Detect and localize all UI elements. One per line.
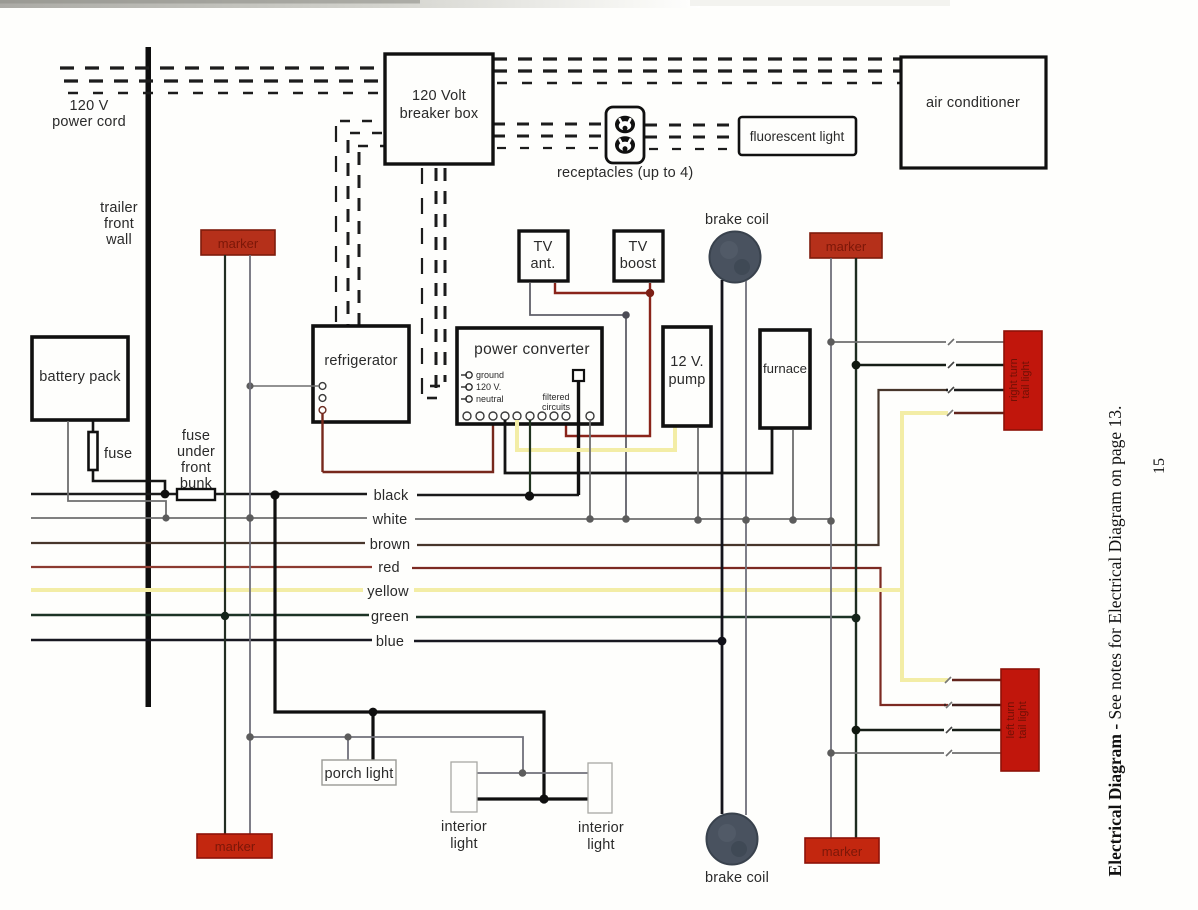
svg-text:light: light (587, 837, 615, 853)
power converter bottom terminal row (463, 412, 594, 420)
wire brown bus right, turns up at x879 to upper signal box (417, 390, 948, 545)
svg-text:black: black (374, 488, 409, 504)
node lower signal 4 (827, 749, 835, 757)
furnace box (760, 330, 810, 428)
svg-text:right turn: right turn (1008, 358, 1020, 401)
120V power cord dashed lines (60, 68, 384, 93)
node black bus lights feed (270, 490, 279, 499)
wire right marker dark vertical (855, 258, 857, 838)
wire green pc terminal to black bus (529, 420, 531, 496)
wire upper signal 2 (black from marker) (856, 364, 1004, 367)
wire white bus right (415, 518, 831, 520)
brake coil (bottom) (707, 814, 758, 865)
svg-text:neutral: neutral (476, 394, 504, 404)
wire white bus (31, 517, 367, 519)
node left marker on green bus (221, 612, 229, 620)
svg-text:tail light: tail light (1020, 361, 1032, 398)
marker bottom-right (805, 838, 879, 863)
svg-text:receptacles (up to 4): receptacles (up to 4) (557, 165, 693, 181)
porch light box (322, 760, 396, 785)
svg-text:circuits: circuits (542, 402, 571, 412)
svg-text:Electrical Diagram - See notes: Electrical Diagram - See notes for Elect… (1105, 406, 1125, 877)
terminal ground (461, 374, 467, 376)
wire breaker box to air conditioner (dashed x3) (493, 59, 901, 83)
wire pump white down (697, 428, 699, 520)
svg-text:fuse: fuse (104, 446, 132, 462)
wire lower signal 3 (dark from marker vertical) (856, 729, 1001, 732)
TV boost box (614, 231, 663, 281)
fuse under front bunk (horizontal fuse on black bus) (177, 489, 215, 500)
wire thick black lights feed (275, 495, 588, 799)
svg-text:trailer: trailer (100, 200, 138, 216)
wire breaker box to refrigerator (dashed vertical x3) (336, 121, 384, 325)
svg-text:ground: ground (476, 370, 504, 380)
interior light 1 (451, 762, 477, 812)
wire green bus right (416, 616, 856, 618)
marker top-right (810, 233, 882, 258)
wire upper signal 1 (gray from marker) (831, 341, 1004, 343)
svg-text:power cord: power cord (52, 114, 126, 130)
svg-text:boost: boost (620, 256, 656, 272)
wire yellow down to lower signal box (902, 590, 948, 680)
wire porch light black drop (371, 712, 374, 760)
svg-text:front: front (104, 216, 134, 232)
node interior gray junction (519, 769, 527, 777)
wire gray marker to refrigerator (250, 385, 319, 387)
power converter box (457, 328, 602, 424)
12 V pump box (663, 327, 711, 426)
svg-text:TV: TV (629, 239, 648, 255)
wire breaker box to power converter (dashed vertical x3) (422, 168, 447, 399)
node battery wire on black bus (161, 490, 170, 499)
node blue bus to brake (718, 637, 727, 646)
svg-text:red: red (378, 560, 400, 576)
svg-text:under: under (177, 444, 215, 460)
wire red bus (31, 566, 372, 568)
terminal 120 V. (461, 386, 467, 388)
node left marker gray on white bus (246, 514, 254, 522)
wire yellow bus (31, 588, 363, 592)
node porch gray tap (344, 733, 351, 740)
node pump white (694, 516, 702, 524)
wire blue bus right (414, 640, 722, 642)
wire lower signal 4 (gray from marker vertical) (831, 752, 1001, 754)
svg-text:brake coil: brake coil (705, 212, 769, 228)
wire gray brake vertical (top coil to bottom coil) (745, 281, 747, 815)
wire battery positive to fuse to black bus (93, 421, 165, 494)
node right gray on white bus (827, 517, 835, 525)
svg-text:12 V.: 12 V. (670, 354, 704, 370)
wire left marker dark vertical (224, 255, 226, 834)
node furnace white (789, 516, 797, 524)
svg-text:brown: brown (370, 537, 411, 553)
air conditioner box (901, 57, 1046, 168)
node white pc (586, 515, 594, 523)
svg-text:marker: marker (826, 239, 867, 254)
outlet face 2 (615, 136, 635, 154)
wire thick black filtered circuits to black bus (577, 381, 580, 495)
svg-text:120 V: 120 V (70, 98, 109, 114)
wire porch light gray drop (347, 737, 349, 760)
svg-text:breaker box: breaker box (400, 106, 479, 122)
wire upper signal 3 break (946, 389, 1004, 392)
signal box upper (tail/turn lights) (1004, 331, 1042, 430)
svg-text:fuse: fuse (182, 428, 210, 444)
node green on black bus (525, 491, 534, 500)
wire green bus (31, 614, 369, 616)
svg-text:marker: marker (215, 839, 256, 854)
wire furnace white down (792, 430, 794, 520)
wire battery negative (gray) to white bus (68, 421, 166, 518)
fuse (vertical, battery) (89, 432, 98, 470)
wire yellow bus right (414, 588, 902, 592)
wire lower signal 1 (from yellow, red tip) (952, 679, 1001, 681)
svg-text:interior: interior (441, 819, 487, 835)
wire lower signal 2 (red bus via x880) break (944, 704, 1001, 706)
node white bus brake (742, 516, 750, 524)
node battery gray on white bus (162, 514, 169, 521)
node gray refrigerator junction (246, 382, 253, 389)
svg-text:porch light: porch light (324, 766, 393, 782)
svg-text:front: front (181, 460, 211, 476)
wire upper signal 4 (from yellow) (954, 412, 1004, 414)
svg-text:blue: blue (376, 634, 404, 650)
node right dark on green bus (852, 614, 861, 623)
svg-text:light: light (450, 836, 478, 852)
wire receptacles to fluorescent light (dashed x3) (645, 125, 739, 149)
outlet face 1 (615, 116, 635, 134)
wire white pc terminal down to white bus (589, 420, 591, 519)
svg-text:TV: TV (534, 239, 553, 255)
120 Volt breaker box (385, 54, 493, 164)
svg-text:marker: marker (218, 236, 259, 251)
node TV red junction (646, 289, 654, 297)
svg-text:furnace: furnace (763, 361, 807, 376)
TV ant box (519, 231, 568, 281)
svg-text:pump: pump (668, 372, 705, 388)
node TV gray junction (622, 311, 630, 319)
wire yellow pc terminal to pump (517, 420, 675, 450)
svg-text:battery pack: battery pack (39, 369, 121, 385)
filtered circuits square terminal (573, 370, 584, 381)
signal box lower (1001, 669, 1039, 771)
node upper signal 1 (827, 338, 835, 346)
marker bottom-left (197, 834, 272, 858)
svg-text:white: white (372, 512, 408, 528)
wire left marker gray vertical (249, 255, 251, 834)
wire brown bus (31, 542, 365, 544)
svg-text:brake coil: brake coil (705, 870, 769, 886)
wire TV ant / TV boost red to power converter (555, 283, 650, 436)
trailer front wall (146, 47, 152, 707)
node upper signal 2 (852, 361, 861, 370)
svg-text:air conditioner: air conditioner (926, 95, 1020, 111)
terminal neutral (461, 398, 467, 400)
svg-text:yellow: yellow (367, 584, 409, 600)
wire gray lights return (250, 737, 588, 773)
svg-text:fluorescent light: fluorescent light (750, 129, 845, 144)
svg-text:filtered: filtered (542, 392, 569, 402)
wire black pc terminal to furnace (505, 420, 772, 473)
node white TV ant (622, 515, 630, 523)
svg-text:120 V.: 120 V. (476, 382, 501, 392)
wire black bus (31, 493, 367, 496)
svg-text:15: 15 (1151, 458, 1168, 474)
marker top-left (201, 230, 275, 255)
svg-text:left turn: left turn (1005, 702, 1017, 739)
svg-text:bunk: bunk (180, 476, 213, 492)
node gray lights return tap (246, 733, 254, 741)
svg-text:green: green (371, 609, 409, 625)
receptacles symbol (606, 107, 644, 163)
svg-text:120 Volt: 120 Volt (412, 88, 466, 104)
refrigerator box (313, 326, 409, 422)
interior light 2 (588, 763, 612, 813)
wire yellow up to upper signal box (902, 413, 948, 590)
wire TV ant gray down to white bus (530, 283, 626, 518)
svg-text:ant.: ant. (531, 256, 556, 272)
wire red bus right, turns down at x880 to lower signal box (412, 568, 948, 705)
refrigerator terminals (319, 383, 326, 390)
svg-text:power converter: power converter (474, 341, 590, 358)
battery pack box (32, 337, 128, 420)
svg-text:tail light: tail light (1017, 701, 1029, 738)
wire black bus right (417, 494, 579, 497)
wire blue bus (31, 639, 372, 641)
wire blue brake vertical (top coil to bottom coil) (721, 280, 724, 814)
svg-text:refrigerator: refrigerator (324, 353, 397, 369)
node interior light black junction (539, 794, 548, 803)
fluorescent light box (739, 117, 856, 155)
wire refrigerator red to power converter (323, 413, 494, 472)
node lower signal 3 (852, 726, 861, 735)
svg-text:interior: interior (578, 820, 624, 836)
wire right marker gray vertical (830, 258, 832, 838)
svg-text:wall: wall (105, 232, 132, 248)
wire breaker box to receptacles (dashed x3) (493, 124, 606, 148)
node porch light black tap (369, 708, 378, 717)
svg-text:marker: marker (822, 844, 863, 859)
